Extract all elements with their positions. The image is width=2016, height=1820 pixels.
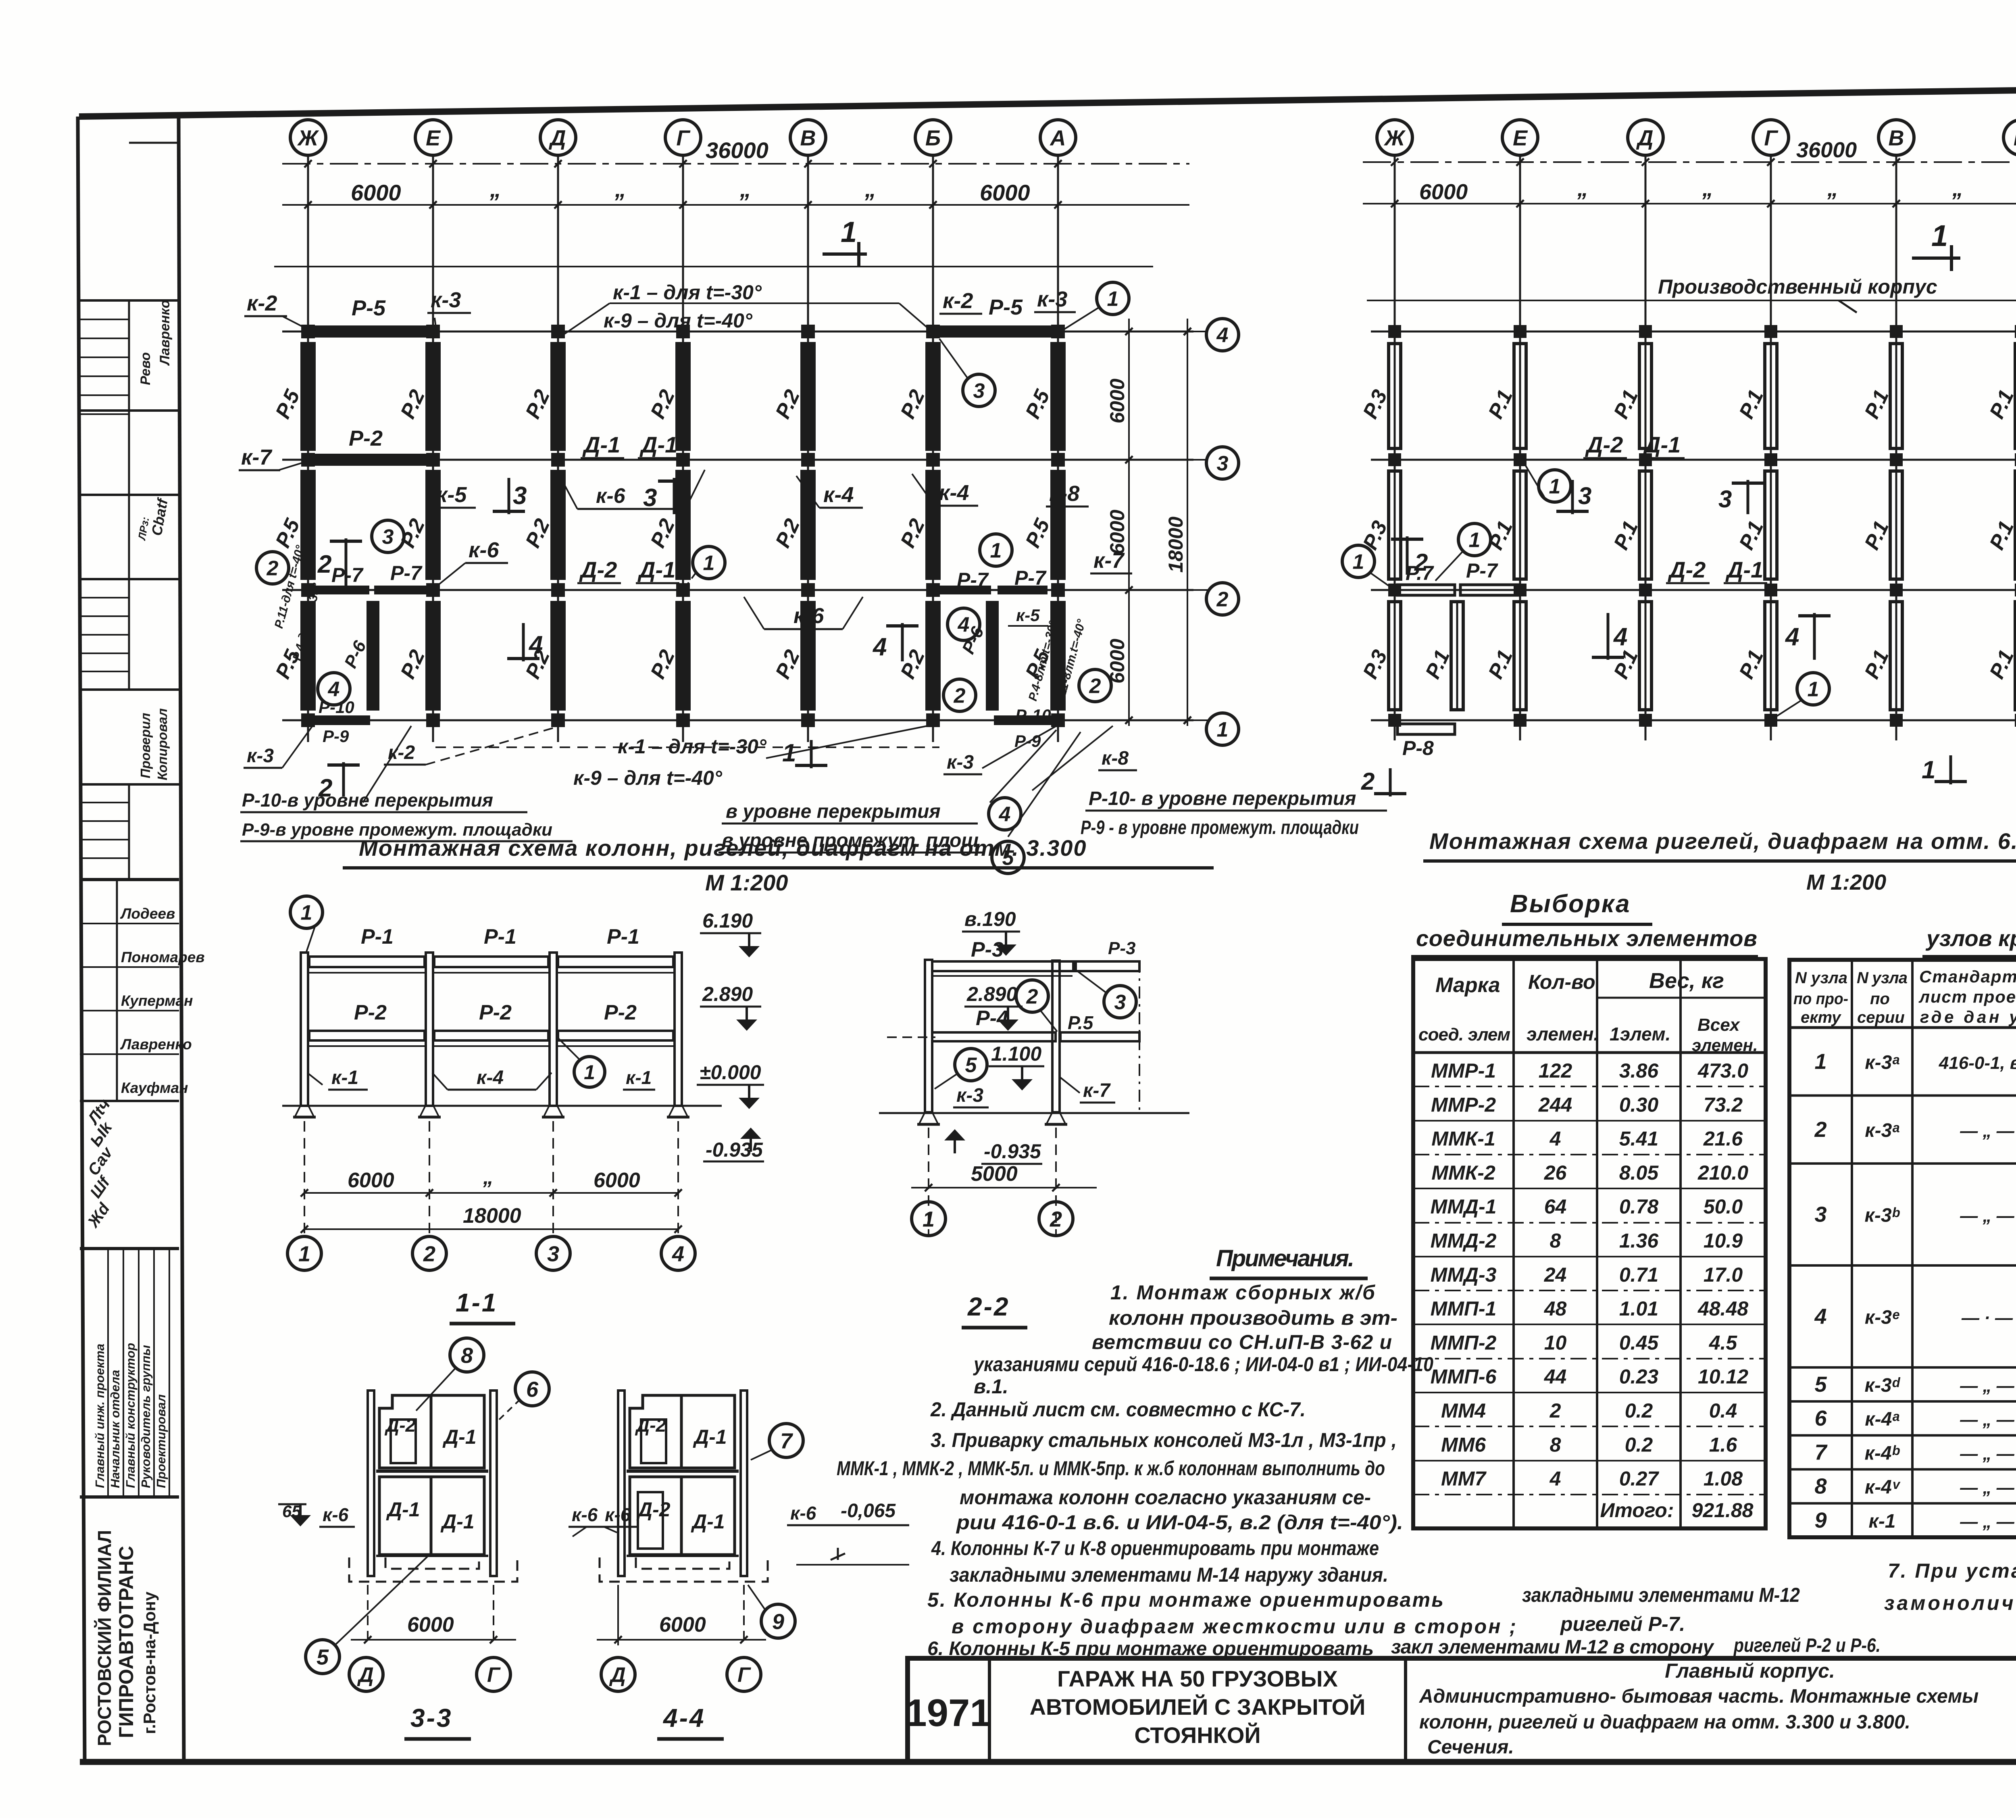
svg-text:ММ6: ММ6 [1441,1433,1486,1456]
section 4-4 callout circles [748,1424,803,1638]
elevation 2-2 beams [887,961,1139,1041]
svg-text:Г: Г [737,1664,751,1687]
svg-text:8: 8 [1814,1474,1826,1499]
svg-text:РОСТОВСКИЙ ФИЛИАЛ: РОСТОВСКИЙ ФИЛИАЛ [94,1530,115,1746]
svg-text:Г: Г [1764,126,1779,150]
svg-text:6000: 6000 [659,1613,706,1637]
svg-text:к-6: к-6 [323,1504,349,1525]
svg-text:7: 7 [780,1429,793,1453]
elevation 1-1 column labels [290,896,655,1090]
svg-text:Д-1: Д-1 [639,432,677,457]
svg-text:Г: Г [487,1664,501,1687]
Д-1 Д-1 labels row3 [581,432,681,458]
svg-text:в.1.: в.1. [974,1375,1008,1398]
svg-text:4: 4 [1814,1304,1826,1328]
svg-text:5: 5 [965,1054,977,1077]
svg-text:Р-10-в уровне перекрытия: Р-10-в уровне перекрытия [242,790,493,811]
right plan bars row2-row1 [1358,602,2016,710]
svg-text:6000: 6000 [980,180,1030,205]
svg-text:ММП-1: ММП-1 [1431,1297,1497,1320]
svg-text:к-6: к-6 [572,1504,598,1525]
beam Р-5 top left with label [310,296,431,338]
svg-text:Д-2: Д-2 [1668,557,1706,582]
svg-text:в.190: в.190 [964,908,1016,930]
top callout к-2 right [939,289,982,314]
callout к-8 row3 [1046,482,1089,507]
svg-text:1: 1 [584,1061,595,1084]
stamp labels Проверил Копировал [138,708,170,780]
svg-text:48.48: 48.48 [1697,1297,1748,1320]
notes title Примечания [1210,1245,1368,1278]
svg-text:8.05: 8.05 [1619,1161,1659,1184]
beams Р-7 Р-7 row2 right [939,567,1048,594]
svg-text:10: 10 [1544,1331,1567,1354]
svg-text:закладными элементами М-14: закладными элементами М-14 наружу здания… [950,1564,1388,1586]
svg-text:8: 8 [1550,1433,1561,1456]
svg-text:закладными элементами М-12: закладными элементами М-12 [1522,1584,1800,1606]
svg-text:1.08: 1.08 [1704,1468,1743,1490]
svg-text:2-2: 2-2 [967,1292,1010,1321]
svg-text:к-9 – для t=-40°: к-9 – для t=-40° [573,767,723,789]
circle 1 row2 right [980,534,1012,566]
svg-text:— „ —: — „ — [1960,1512,2014,1532]
section 4-4 panels [600,1391,768,1582]
svg-text:к-2: к-2 [388,742,415,763]
svg-text:соед. элем: соед. элем [1418,1025,1510,1044]
svg-text:Проверил: Проверил [138,713,153,778]
svg-text:3: 3 [1578,482,1591,509]
callout к-6 row3 [560,470,705,509]
svg-text:5: 5 [317,1645,329,1669]
svg-text:6000: 6000 [1419,180,1468,204]
svg-text:ММР-2: ММР-2 [1431,1093,1496,1116]
section mark 4 mid [872,623,918,661]
svg-text:0.2: 0.2 [1625,1433,1653,1456]
elevation 2-2 ground [879,1113,1189,1124]
section arrow 1 top [823,216,867,266]
table Таблица узлов frame [1789,960,2016,1537]
svg-text:Р-7: Р-7 [1014,567,1047,589]
svg-text:Д-2: Д-2 [384,1415,416,1436]
svg-text:1: 1 [301,901,312,925]
right plan grid letter circles [1377,120,2016,155]
right plan bars row4-row3 [1358,344,2016,448]
svg-text:3: 3 [513,482,527,510]
svg-text:к-3ᵃ: к-3ᵃ [1865,1052,1899,1073]
svg-text:N узла: N узла [1857,969,1908,987]
svg-text:Д: Д [549,126,566,150]
svg-text:0.23: 0.23 [1619,1366,1659,1388]
svg-text:3. Приварку стальных консол: 3. Приварку стальных консолей М3-1л , М3… [931,1429,1397,1451]
right plan section marks 2 [1361,536,1428,796]
table Таблица узлов title [1922,888,2016,957]
left stamp column strip [80,115,184,1762]
svg-text:„: „ [739,176,751,202]
svg-text:Р-2: Р-2 [479,1001,512,1024]
svg-text:Ж: Ж [1383,126,1406,150]
svg-text:1: 1 [1814,1049,1826,1074]
svg-text:ММ7: ММ7 [1441,1468,1487,1490]
svg-text:к-3ᵉ: к-3ᵉ [1865,1307,1899,1328]
svg-text:Р-2: Р-2 [349,426,383,450]
svg-text:Д: Д [357,1664,374,1687]
rotated Р.5 labels far left column [272,544,324,662]
svg-text:Р.5: Р.5 [1068,1012,1094,1033]
label Производственный корпус [1367,275,2016,313]
svg-text:Административно- бытовая час: Административно- бытовая часть. Монтажны… [1419,1686,1979,1707]
caption 3-3 [404,1703,471,1739]
notes text block [837,1281,1881,1659]
svg-text:к-4ᵇ: к-4ᵇ [1865,1443,1900,1464]
svg-text:„: „ [489,176,501,202]
svg-text:18000: 18000 [463,1204,521,1228]
svg-text:закл элементами М-12 в стор: закл элементами М-12 в сторону [1391,1637,1714,1658]
svg-text:2: 2 [1026,985,1038,1009]
stamp signature scribbles [135,496,171,542]
svg-text:2: 2 [1050,1207,1062,1231]
svg-text:1элем.: 1элем. [1610,1024,1670,1044]
circle 3 row3 left [372,520,404,552]
svg-text:к-7: к-7 [1083,1080,1111,1101]
stamp surnames list [120,905,205,1096]
right plan section mark 1 bottom [1922,755,1967,784]
circle 4 bottom right [948,608,980,640]
svg-text:1: 1 [923,1207,935,1231]
svg-text:Рево: Рево [138,352,153,385]
elevation 2-2 columns [925,960,1139,1114]
svg-text:21.6: 21.6 [1703,1128,1743,1150]
svg-text:1.100: 1.100 [991,1042,1041,1065]
title block sheet description [1419,1659,1979,1758]
svg-text:Д-1: Д-1 [1725,557,1763,582]
section 3-3 panels [349,1391,517,1582]
section 3-3 callout circles [306,1338,549,1674]
svg-text:„: „ [864,176,876,202]
right plan section mark 3 top bays [1556,480,1764,514]
svg-text:Главный конструктор: Главный конструктор [123,1343,137,1488]
svg-text:Р-3: Р-3 [971,938,1004,961]
svg-text:М 1:200: М 1:200 [705,870,788,895]
svg-text:к-9 – для t=-40°: к-9 – для t=-40° [604,309,753,332]
stamp signatures slanted [84,1096,117,1231]
elevation 1-1 bottom dims [301,1121,682,1236]
svg-text:замоноличивание вести бето: замоноличивание вести бетоном М-200 на м… [1884,1592,2016,1614]
svg-text:СТОЯНКОЙ: СТОЯНКОЙ [1134,1722,1260,1748]
svg-text:4: 4 [1785,623,1799,651]
svg-text:4: 4 [672,1242,684,1266]
svg-text:Р-10: Р-10 [1015,706,1051,725]
svg-text:6000: 6000 [351,180,401,205]
svg-text:— „ —: — „ — [1960,1121,2014,1141]
svg-text:3: 3 [1114,991,1126,1014]
svg-text:— „ —: — „ — [1960,1410,2014,1430]
svg-text:— „ —: — „ — [1960,1478,2014,1498]
svg-text:6: 6 [1814,1406,1827,1430]
svg-text:Главный корпус.: Главный корпус. [1665,1659,1835,1682]
svg-text:4: 4 [1216,324,1229,347]
svg-text:416-0-1, в.6: 416-0-1, в.6 [1939,1053,2016,1073]
svg-text:к-3: к-3 [247,745,274,767]
svg-text:ММ4: ММ4 [1441,1399,1486,1422]
svg-text:1.36: 1.36 [1619,1230,1659,1252]
svg-text:к-5: к-5 [436,483,467,507]
svg-text:к-3ᵈ: к-3ᵈ [1865,1375,1901,1396]
svg-text:2: 2 [1814,1117,1826,1142]
svg-text:5000: 5000 [971,1162,1018,1186]
beam Р-10 row1 left + label Р-9 [310,698,370,746]
svg-text:Р-2: Р-2 [354,1001,387,1024]
top callout к-3 [427,288,471,330]
svg-text:Кол-во: Кол-во [1528,971,1595,993]
section 3-3 dims and axis [349,1585,516,1691]
left plan top chain and dim lines [274,160,1189,267]
svg-text:„: „ [1702,177,1713,201]
svg-text:122: 122 [1539,1059,1572,1082]
svg-text:Лавренко: Лавренко [120,1036,192,1053]
svg-text:екту: екту [1801,1009,1841,1026]
svg-text:2: 2 [1216,588,1229,611]
svg-text:г.Ростов-на-Дону: г.Ростов-на-Дону [140,1591,159,1734]
beam Р-10 row1 right + labels [994,706,1056,751]
caption 2-2 [962,1292,1027,1328]
svg-text:10.9: 10.9 [1704,1230,1743,1252]
beams Р-7 Р-7 row2 left [310,562,431,594]
svg-text:к-7: к-7 [241,445,273,469]
left bottom note Р-10 Р-9 [240,726,573,841]
svg-text:1: 1 [298,1242,310,1266]
svg-text:к-3: к-3 [431,288,461,312]
svg-text:2: 2 [954,684,966,708]
svg-text:Д-1: Д-1 [693,1426,727,1448]
svg-text:— „ —: — „ — [1960,1376,2014,1396]
svg-text:по про-: по про- [1793,990,1848,1008]
svg-text:10.12: 10.12 [1698,1366,1748,1388]
caption 4-4 [657,1703,724,1739]
svg-text:6000: 6000 [407,1613,454,1637]
elevation level marks column B [944,908,1044,1164]
svg-text:1.6: 1.6 [1709,1433,1738,1456]
svg-text:„: „ [1827,177,1838,201]
svg-text:к-3: к-3 [947,752,974,773]
svg-text:ригелей Р-7.: ригелей Р-7. [1560,1613,1685,1635]
svg-text:— „ —: — „ — [1960,1206,2014,1226]
circle 2 far right [1079,669,1111,702]
label в уровне перекрытия [722,798,1021,830]
table Таблица узлов data [1789,1035,2016,1537]
Д-2 Д-1 labels right plan row3 [1583,432,1685,458]
svg-text:к-4ᵃ: к-4ᵃ [1865,1409,1899,1430]
svg-text:элемен.: элемен. [1527,1024,1599,1044]
svg-text:к-6: к-6 [596,484,626,508]
svg-text:-0,065: -0,065 [841,1500,896,1522]
svg-text:Итого:: Итого: [1600,1499,1674,1522]
svg-text:9: 9 [772,1609,784,1634]
svg-text:8: 8 [461,1343,473,1368]
left plan node squares [301,325,1065,727]
svg-text:к-4ᵛ: к-4ᵛ [1865,1477,1901,1498]
svg-text:3: 3 [1718,486,1732,513]
svg-text:4.5: 4.5 [1709,1331,1738,1354]
svg-text:4. Колонны К-7 и К-8 ориентир: 4. Колонны К-7 и К-8 ориентировать при м… [931,1537,1379,1559]
svg-text:Р-1: Р-1 [361,925,394,949]
svg-text:244: 244 [1538,1093,1572,1116]
circle 4 left lower [318,673,350,705]
svg-text:0.4: 0.4 [1709,1399,1737,1422]
svg-text:А: А [1050,126,1066,150]
svg-text:В: В [1889,126,1904,150]
svg-text:0.71: 0.71 [1619,1263,1658,1286]
table Выборка title [1411,890,1758,957]
right plan dim texts [1419,138,2016,204]
svg-text:3: 3 [547,1242,559,1266]
svg-text:Примечания.: Примечания. [1216,1245,1355,1272]
svg-text:Р-5: Р-5 [352,296,386,320]
svg-text:2: 2 [267,557,279,580]
svg-text:Пономарев: Пономарев [121,949,205,965]
svg-text:к-2: к-2 [247,291,277,315]
svg-text:Выборка: Выборка [1510,890,1631,918]
bottom callouts under left plan [244,726,1137,789]
svg-text:лист проекта,: лист проекта, [1918,987,2016,1006]
svg-text:64: 64 [1544,1195,1567,1218]
svg-text:колонн производить в эт-: колонн производить в эт- [1109,1307,1397,1329]
section mark 3 right [643,478,690,514]
svg-text:2: 2 [1361,768,1375,795]
svg-text:1: 1 [1922,756,1935,784]
svg-text:-0.935: -0.935 [706,1138,763,1161]
svg-text:Всех: Всех [1697,1015,1740,1035]
svg-text:Р-7: Р-7 [1466,559,1498,582]
svg-text:Начальник отдела: Начальник отдела [108,1370,122,1488]
svg-text:17.0: 17.0 [1704,1263,1743,1286]
svg-text:к-2: к-2 [943,289,973,313]
svg-text:указаниями серий 416-0-18.6: указаниями серий 416-0-18.6 ; ИИ-04-0 в1… [973,1353,1433,1376]
svg-text:1: 1 [841,216,857,248]
svg-text:Куперман: Куперман [121,992,193,1009]
svg-text:серии: серии [1857,1009,1905,1026]
callout к-4 right [912,474,978,506]
svg-text:3-3: 3-3 [410,1703,453,1732]
right plan bars row3-row2 [1358,471,2016,579]
svg-text:Б: Б [925,126,941,150]
label в уровне промежут площ [719,830,1024,874]
svg-text:узлов крепления карк: узлов крепления каркаса [1925,926,2016,951]
beam Р-5 top right with label [935,295,1056,338]
svg-text:ММД-2: ММД-2 [1431,1230,1497,1252]
section 4-4 dims and axis [597,1585,766,1691]
dim 6000 row with dittos [351,176,1030,205]
section mark 4 left [507,623,543,661]
svg-text:N узла: N узла [1795,969,1847,987]
svg-text:Д: Д [609,1664,626,1687]
svg-text:в сторону диафрагм жесткости: в сторону диафрагм жесткости или в сторо… [952,1615,1516,1638]
svg-text:2. Данный лист см. совместно: 2. Данный лист см. совместно с КС-7. [930,1398,1306,1421]
right plan column node crosses [1388,325,2016,727]
svg-text:2: 2 [317,550,331,578]
svg-text:ММК-1 , ММК-2 , ММК-5л. и ММК-: ММК-1 , ММК-2 , ММК-5л. и ММК-5пр. к ж.б… [837,1457,1385,1480]
svg-text:3.86: 3.86 [1619,1059,1659,1082]
svg-text:к-1 – для t=-30°: к-1 – для t=-30° [613,281,762,304]
svg-text:4: 4 [1549,1468,1561,1490]
left plan diaphragm bars row2-row1 [271,601,1066,711]
svg-text:соединительных элементов: соединительных элементов [1416,926,1757,951]
beams Р-7 Р-7 right plan row2 left [1397,559,1518,595]
svg-text:4: 4 [1549,1128,1561,1150]
svg-text:921.88: 921.88 [1692,1499,1754,1522]
callout к-5 bottom right [1008,606,1048,626]
caption 1-1 [450,1288,515,1324]
svg-text:Монтажная схема ригелей, ди: Монтажная схема ригелей, диафрагм на отм… [1429,828,2016,854]
svg-text:44: 44 [1544,1366,1567,1388]
svg-text:Сечения.: Сечения. [1427,1737,1514,1758]
note 7 right [1884,1559,2016,1640]
svg-text:1. Монтаж сборных ж/б: 1. Монтаж сборных ж/б [1110,1281,1376,1304]
svg-text:Р-8: Р-8 [1402,737,1434,759]
svg-text:к-3: к-3 [956,1085,983,1106]
svg-text:6.190: 6.190 [702,909,753,932]
svg-text:4: 4 [872,633,887,661]
table Выборка frame [1413,959,1766,1528]
right plan section marks 4 [1592,613,1831,660]
elevation 2-2 dims [911,1128,1097,1236]
svg-text:Р-4: Р-4 [976,1007,1008,1030]
callout к-7 left row3 [239,445,310,470]
svg-text:Е: Е [1513,126,1528,150]
svg-text:Д-1: Д-1 [637,557,675,582]
svg-text:1: 1 [1808,678,1819,701]
svg-text:4-4: 4-4 [662,1703,706,1732]
svg-text:6: 6 [526,1377,539,1401]
svg-text:„: „ [1952,177,1963,201]
right plan vertical grid lines [1395,156,2016,740]
svg-text:Копировал: Копировал [155,708,170,780]
svg-text:Производственный корпус: Производственный корпус [1658,275,1937,298]
svg-text:ММП-2: ММП-2 [1431,1331,1497,1354]
svg-text:Д-1: Д-1 [1643,432,1681,457]
section mark 1 bottom [782,739,827,768]
elevation 1-1 ground line [282,1106,722,1117]
svg-text:0.30: 0.30 [1619,1093,1659,1116]
svg-text:к-6: к-6 [790,1503,816,1524]
Д-2 Д-1 labels right plan row2 [1666,557,1767,583]
svg-text:ГАРАЖ НА 50 ГРУЗОВЫХ: ГАРАЖ НА 50 ГРУЗОВЫХ [1057,1666,1338,1691]
svg-text:Вес, кг: Вес, кг [1649,969,1724,993]
svg-text:„: „ [1577,177,1588,201]
svg-text:3: 3 [1814,1202,1826,1226]
svg-text:ММД-1: ММД-1 [1431,1195,1497,1218]
svg-text:„: „ [483,1165,494,1189]
svg-text:1: 1 [1469,529,1481,552]
svg-text:АВТОМОБИЛЕЙ С ЗАКРЫТОЙ: АВТОМОБИЛЕЙ С ЗАКРЫТОЙ [1030,1694,1366,1720]
left plan right row circles 4 3 2 1 [1193,319,1239,745]
svg-text:1971: 1971 [905,1691,991,1735]
beam Р-8 right plan row1 left [1397,724,1455,759]
svg-text:36000: 36000 [706,138,768,163]
svg-text:4: 4 [1613,623,1627,651]
elevation 1-1 axis circles [287,1236,695,1270]
svg-text:3: 3 [973,379,985,403]
svg-text:-0.935: -0.935 [984,1140,1041,1163]
svg-text:1.01: 1.01 [1619,1297,1658,1320]
svg-text:1: 1 [1353,550,1364,574]
svg-text:к-4: к-4 [823,483,854,507]
svg-text:26: 26 [1544,1161,1567,1184]
section mark 2 upper left [317,538,362,586]
table Выборка data rows [1413,1059,1766,1522]
beam Р-2 row3 with label [310,426,431,466]
svg-text:Д-1: Д-1 [440,1510,475,1533]
svg-text:1: 1 [703,552,715,575]
